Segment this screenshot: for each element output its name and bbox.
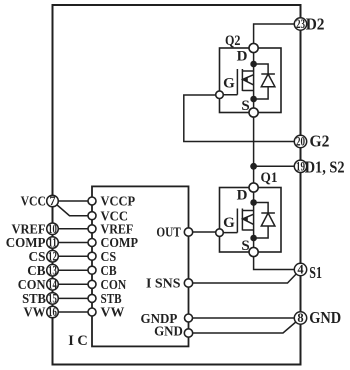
svg-text:16: 16 [48, 305, 57, 319]
svg-text:D: D [237, 188, 248, 204]
svg-text:S: S [241, 238, 249, 254]
IC pin GNDP [141, 312, 193, 327]
wire pin13 to CB [53, 269, 93, 271]
svg-text:OUT: OUT [156, 226, 181, 241]
svg-text:G: G [223, 215, 235, 231]
svg-text:G: G [223, 76, 235, 92]
IC pin VCC [88, 209, 128, 224]
wire pin23 D2 to Q2 drain [254, 24, 301, 48]
wire OUT to Q1 gate [189, 231, 220, 233]
wire pin7 to VCC [53, 201, 93, 216]
wire pin7 to VCCP [53, 200, 93, 202]
wire pin11 to COMP [53, 242, 93, 244]
svg-text:GND: GND [309, 308, 341, 327]
svg-text:11: 11 [48, 236, 57, 250]
svg-text:S: S [241, 98, 249, 114]
wire node D1,S2 to pin19 [254, 165, 301, 167]
pin 11 COMP [6, 236, 59, 252]
pin 16 VW [24, 305, 59, 321]
IC pin CON [88, 278, 126, 293]
wire pin15 to STB [53, 297, 93, 299]
svg-text:CB: CB [27, 264, 45, 279]
pin 7 VCC [21, 194, 59, 210]
svg-text:15: 15 [48, 292, 57, 306]
wire GNDP to pin8 [189, 317, 301, 319]
wire Q2 gate to pin20 G2 [184, 95, 301, 142]
svg-text:G2: G2 [310, 131, 330, 150]
IC pin VREF [88, 223, 133, 238]
svg-text:D2: D2 [306, 15, 325, 34]
svg-text:D1, S2: D1, S2 [305, 157, 345, 176]
wire ISNS to pin4 S1 [189, 270, 301, 284]
transistor Q1 [216, 170, 281, 257]
svg-text:VCC: VCC [21, 195, 46, 210]
svg-text:CON: CON [101, 278, 127, 293]
svg-text:12: 12 [48, 249, 57, 263]
svg-text:I C: I C [68, 333, 88, 349]
svg-text:8: 8 [297, 311, 303, 325]
svg-text:19: 19 [296, 159, 305, 173]
wire pin16 to VW [53, 311, 93, 313]
svg-text:13: 13 [48, 263, 57, 277]
IC pin ISNS [146, 277, 193, 292]
pin 20 G2 [294, 131, 329, 150]
pin 14 CON [18, 277, 59, 293]
svg-text:CS: CS [29, 250, 46, 265]
svg-text:I SNS: I SNS [146, 277, 181, 292]
svg-text:VW: VW [101, 306, 125, 321]
IC pin VCCP [88, 195, 135, 210]
svg-text:Q2: Q2 [225, 33, 241, 49]
wire Q1 source to pin4 S1 [254, 252, 301, 270]
pin 10 VREF [12, 222, 59, 238]
IC pin CB [88, 264, 117, 279]
svg-text:CB: CB [101, 264, 117, 279]
transistor Q2 [216, 33, 281, 117]
svg-text:14: 14 [48, 277, 57, 291]
IC pin STB [88, 292, 122, 307]
junction D1,S2 node [250, 163, 257, 170]
svg-text:20: 20 [296, 135, 305, 149]
wire GND to pin8 [189, 318, 301, 333]
pin 13 CB [27, 263, 58, 279]
IC pin CS [88, 250, 116, 265]
svg-text:23: 23 [296, 17, 305, 31]
pin 15 STB [22, 292, 58, 308]
IC pin COMP [88, 236, 138, 251]
pin 8 GND [294, 308, 341, 327]
svg-text:D: D [237, 49, 248, 65]
IC pin VW [88, 306, 124, 321]
net D1,S2: Q2 source to Q1 drain [253, 113, 255, 188]
svg-text:7: 7 [49, 194, 55, 208]
IC pin OUT [156, 226, 192, 241]
svg-text:Q1: Q1 [261, 170, 278, 186]
svg-text:4: 4 [297, 263, 304, 277]
wire pin12 to CS [53, 255, 93, 257]
svg-text:VW: VW [24, 306, 46, 321]
svg-text:GND: GND [154, 325, 183, 340]
svg-text:CS: CS [101, 250, 117, 265]
svg-text:S1: S1 [309, 263, 322, 282]
svg-text:VCCP: VCCP [101, 195, 136, 210]
wire pin14 to CON [53, 283, 93, 285]
pin 23 D2 [294, 15, 324, 34]
svg-text:10: 10 [48, 222, 57, 236]
package outline [53, 5, 301, 365]
pin 12 CS [29, 249, 59, 265]
wire pin10 to VREF [53, 228, 93, 230]
pin 19 D1,S2 [294, 157, 344, 176]
IC pin GND [154, 325, 193, 340]
svg-text:CON: CON [18, 278, 46, 293]
IC block U1 [92, 186, 189, 346]
pin 4 S1 [294, 263, 322, 282]
